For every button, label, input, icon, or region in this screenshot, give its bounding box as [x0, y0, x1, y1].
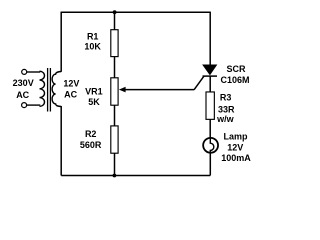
wire wiper to gate — [125, 89, 195, 91]
svg-text:VR1: VR1 — [85, 87, 103, 97]
thyristor SCR cathode bar — [203, 75, 218, 77]
svg-text:230V: 230V — [13, 78, 34, 88]
svg-text:560R: 560R — [80, 140, 102, 150]
wire top dot to R1 — [114, 12, 116, 30]
svg-text:SCR: SCR — [226, 64, 246, 74]
transformer T1 primary winding — [40, 71, 45, 106]
wire bottom terminal to primary — [27, 104, 41, 106]
wire bottom horizontal — [61, 175, 210, 177]
resistor R3 — [206, 92, 214, 119]
wire left vertical bottom section — [60, 106, 62, 176]
wire right vertical to SCR anode — [209, 12, 211, 66]
lamp filament — [210, 138, 214, 153]
wire gate diagonal — [194, 76, 204, 90]
svg-text:10K: 10K — [84, 42, 101, 52]
lamp circle — [203, 138, 218, 153]
wire lamp to bottom — [209, 152, 211, 176]
svg-text:12V: 12V — [227, 143, 243, 153]
terminal top-left — [22, 69, 27, 74]
resistor R2 — [111, 126, 118, 153]
junction dot bottom — [113, 174, 117, 178]
transformer T1 secondary winding — [52, 72, 61, 107]
terminal bottom-left — [22, 103, 27, 108]
svg-text:R3: R3 — [220, 92, 232, 102]
svg-text:AC: AC — [64, 89, 77, 99]
wire R3 to lamp — [209, 119, 211, 138]
svg-text:R2: R2 — [85, 129, 97, 139]
junction dot top — [113, 10, 117, 14]
svg-text:12V: 12V — [63, 79, 79, 89]
svg-text:33R: 33R — [218, 104, 235, 114]
wire R2 to bottom — [114, 153, 116, 175]
wire SCR cathode to R3 — [209, 76, 211, 92]
svg-text:AC: AC — [16, 90, 29, 100]
svg-text:100mA: 100mA — [221, 153, 251, 163]
resistor R1 — [111, 30, 118, 57]
svg-text:R1: R1 — [87, 32, 99, 42]
svg-text:w/w: w/w — [216, 114, 235, 124]
wire VR1 to R2 — [114, 105, 116, 126]
svg-text:C106M: C106M — [220, 75, 249, 85]
transformer core — [47, 68, 49, 112]
wire top horizontal — [61, 11, 210, 13]
svg-text:5K: 5K — [88, 97, 100, 107]
VR1 wiper arrow — [119, 87, 126, 93]
wire R1 to VR1 — [114, 57, 116, 78]
thyristor SCR anode triangle — [203, 65, 217, 75]
wire left vertical top section — [60, 12, 62, 72]
wire top terminal to primary — [27, 71, 41, 73]
svg-text:Lamp: Lamp — [223, 132, 248, 142]
potentiometer VR1 — [111, 78, 118, 105]
